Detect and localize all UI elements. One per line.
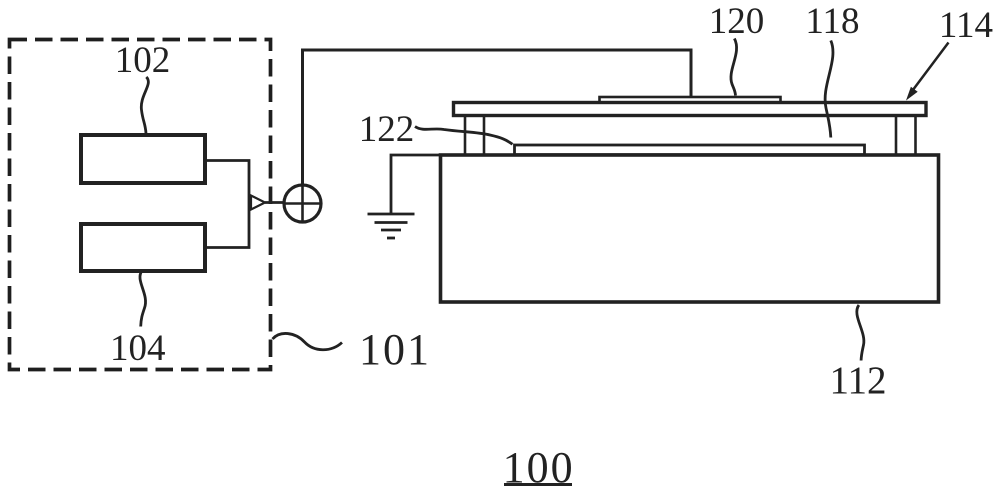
svg-text:118: 118 — [805, 1, 859, 42]
svg-text:102: 102 — [115, 40, 171, 81]
svg-text:122: 122 — [359, 109, 415, 150]
svg-text:104: 104 — [110, 328, 166, 369]
svg-text:101: 101 — [359, 325, 429, 374]
svg-text:112: 112 — [829, 359, 886, 402]
svg-text:120: 120 — [709, 1, 765, 42]
svg-text:114: 114 — [939, 5, 993, 46]
